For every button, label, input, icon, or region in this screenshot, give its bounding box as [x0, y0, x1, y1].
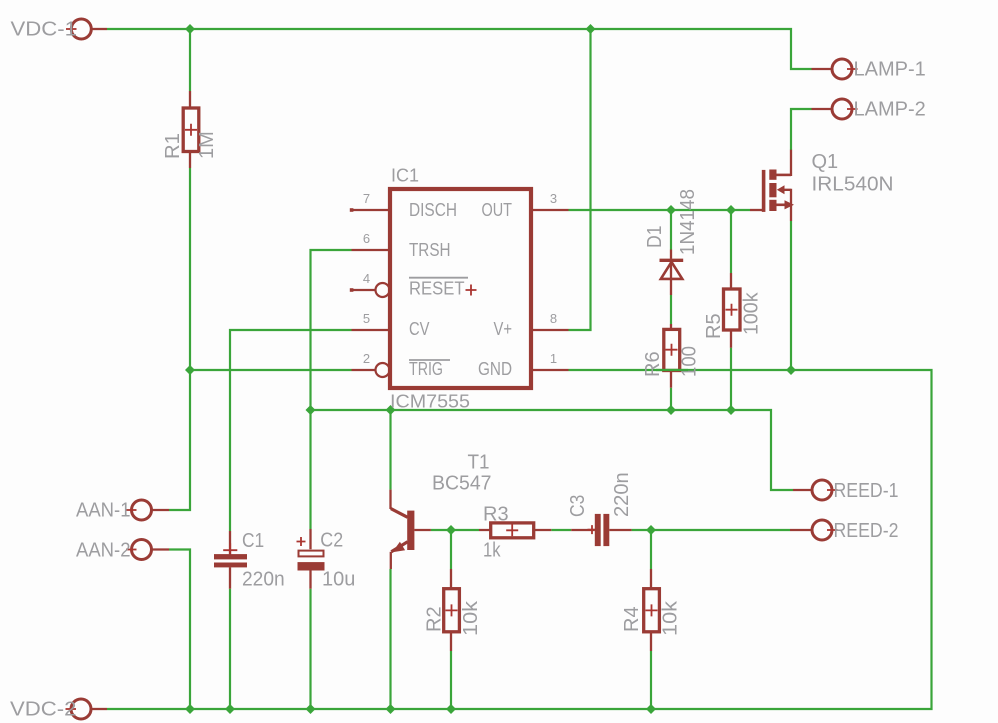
- svg-text:10u: 10u: [322, 569, 355, 591]
- junction node top rail at V+ branch: [586, 24, 596, 34]
- connector pin VDC-2: [10, 699, 107, 721]
- wire TRSH net pin 6 to C2: [311, 250, 352, 529]
- svg-text:R6: R6: [642, 351, 664, 377]
- wire R3 to C3: [551, 529, 571, 531]
- svg-text:AAN-2: AAN-2: [76, 540, 131, 562]
- svg-text:8: 8: [550, 311, 557, 326]
- wire Q1 source down to GND net: [790, 221, 792, 370]
- svg-text:CV: CV: [409, 319, 430, 339]
- resistor R2 10k: [424, 569, 483, 651]
- junction node ground rail at C2: [306, 704, 316, 714]
- wire R1 top lead to rail: [189, 29, 191, 91]
- connector pin VDC-1: [11, 19, 108, 41]
- junction node OUT at R5: [726, 205, 736, 215]
- svg-text:Q1: Q1: [812, 151, 839, 173]
- svg-text:REED-1: REED-1: [834, 480, 899, 502]
- wire R2 top: [450, 530, 452, 569]
- junction node ground rail at x190: [185, 704, 195, 714]
- junction node mid net at C2 column: [306, 405, 316, 415]
- junction node ground rail at T1 emitter: [386, 704, 396, 714]
- transistor T1 BC547 npn: [391, 452, 492, 570]
- wire R5 top to OUT net: [730, 210, 732, 273]
- svg-text:R4: R4: [621, 606, 643, 632]
- IC1 pin 3 OUT: [482, 191, 569, 220]
- svg-text:10k: 10k: [460, 600, 482, 636]
- junction node OUT at D1: [666, 205, 676, 215]
- svg-text:TRSH: TRSH: [409, 240, 451, 260]
- svg-text:220n: 220n: [611, 472, 633, 517]
- wire TRIG net from node to pin 2: [190, 369, 352, 371]
- junction node C3 net at R4: [646, 525, 656, 535]
- svg-text:T1: T1: [468, 452, 490, 474]
- IC1 pin 5 CV: [352, 311, 430, 339]
- svg-text:6: 6: [363, 231, 370, 246]
- svg-text:C3: C3: [567, 495, 589, 517]
- IC1 pin 2 TRIG inverted: [352, 351, 451, 379]
- svg-text:4: 4: [363, 271, 370, 286]
- wire GND net overlay across R6: [656, 369, 688, 371]
- connector pin AAN-2: [76, 540, 169, 562]
- svg-text:1M: 1M: [196, 131, 218, 159]
- wire R5 bottom to mid net: [730, 348, 732, 410]
- IC1 pin 6 TRSH: [352, 231, 451, 260]
- resistor R6 100: [642, 324, 701, 388]
- svg-text:AAN-1: AAN-1: [76, 500, 131, 522]
- junction node mid net at R5: [726, 405, 736, 415]
- resistor R3 1k horizontal: [479, 504, 551, 562]
- svg-text:V+: V+: [494, 319, 513, 339]
- svg-text:1N4148: 1N4148: [677, 189, 699, 255]
- svg-text:RESET: RESET: [409, 279, 465, 299]
- svg-text:C1: C1: [242, 530, 264, 552]
- svg-text:R5: R5: [703, 313, 725, 339]
- resistor R5 100k: [703, 273, 763, 348]
- svg-text:R2: R2: [424, 606, 446, 632]
- connector pin REED-2: [790, 520, 899, 542]
- svg-text:TRIG: TRIG: [409, 359, 443, 379]
- svg-text:R1: R1: [162, 133, 184, 159]
- capacitor C3 220n horizontal: [567, 472, 633, 546]
- svg-text:D1: D1: [644, 226, 666, 249]
- junction node top rail at R1: [185, 24, 195, 34]
- wire OUT net pin 3 to gate: [569, 209, 751, 211]
- junction node base net at R2: [446, 525, 456, 535]
- wire R4 top: [650, 530, 652, 569]
- junction node GND net at Q1 source: [786, 365, 796, 375]
- resistor R1 1M: [162, 91, 218, 168]
- wire D1 cathode to R6: [670, 295, 672, 324]
- wire C3 to REED-2: [632, 529, 790, 531]
- wire net N$1 top rail VDC-1 to LAMP-1: [107, 29, 812, 69]
- wire T1 base to R3: [431, 529, 479, 531]
- svg-text:VDC-2: VDC-2: [10, 699, 77, 721]
- connector pin REED-1: [793, 480, 899, 502]
- svg-text:1: 1: [550, 351, 557, 366]
- wire GND net pin 1 right side and bottom ground rail: [107, 370, 932, 709]
- svg-text:LAMP-1: LAMP-1: [854, 59, 926, 81]
- connector pin LAMP-1: [812, 59, 926, 81]
- wire R2 bottom to ground rail: [450, 651, 452, 709]
- svg-text:BC547: BC547: [432, 473, 492, 495]
- wire AAN-2 down to ground rail: [169, 550, 190, 710]
- svg-text:IRL540N: IRL540N: [812, 174, 894, 196]
- svg-text:220n: 220n: [242, 569, 285, 591]
- svg-text:GND: GND: [478, 359, 512, 379]
- svg-text:5: 5: [363, 311, 370, 326]
- wire R1 bottom to AAN-1: [169, 168, 190, 510]
- capacitor C1 220n: [214, 530, 285, 591]
- IC1 pin 1 GND: [478, 351, 569, 379]
- connector pin AAN-1: [76, 500, 169, 522]
- wire V+ branch from pin 8 up to top rail: [569, 29, 591, 330]
- wire mid net y410 to REED-1: [311, 410, 794, 490]
- op-amp timer IC1 ICM7555 box: [390, 166, 531, 412]
- svg-text:VDC-1: VDC-1: [11, 19, 78, 41]
- junction node ground rail at R4: [646, 704, 656, 714]
- svg-text:3: 3: [550, 191, 557, 206]
- connector pin LAMP-2: [812, 99, 926, 121]
- svg-text:7: 7: [363, 191, 370, 206]
- svg-text:LAMP-2: LAMP-2: [854, 99, 926, 121]
- capacitor C2 10u polarized: [297, 529, 356, 591]
- svg-text:DISCH: DISCH: [409, 200, 457, 220]
- junction node mid net at T1 collector: [386, 405, 396, 415]
- svg-text:2: 2: [363, 351, 370, 366]
- svg-text:IC1: IC1: [391, 166, 419, 186]
- transistor Q1 IRL540N mosfet: [750, 150, 894, 221]
- svg-text:1k: 1k: [483, 540, 501, 562]
- wire C1 bottom to ground rail: [229, 589, 231, 709]
- diode D1 1N4148: [644, 189, 699, 295]
- wire R4 bottom to ground rail: [650, 651, 652, 709]
- svg-text:REED-2: REED-2: [834, 520, 899, 542]
- svg-text:ICM7555: ICM7555: [390, 392, 470, 412]
- wire CV net pin 5 to C1: [230, 330, 352, 531]
- IC1 pin 4 RESET inverted: [350, 271, 477, 299]
- IC1 pin 8 V+: [494, 311, 569, 339]
- wire T1 emitter down to ground rail: [389, 569, 391, 709]
- svg-text:100k: 100k: [741, 292, 763, 335]
- junction node mid net at R6: [666, 405, 676, 415]
- wire T1 collector up to mid net: [389, 410, 391, 490]
- svg-text:OUT: OUT: [482, 200, 513, 220]
- svg-text:10k: 10k: [660, 600, 682, 636]
- wire D1 anode to OUT net: [670, 210, 672, 250]
- svg-text:R3: R3: [483, 504, 509, 526]
- junction node ground rail at C1: [225, 704, 235, 714]
- wire C2 bottom to ground rail: [309, 589, 311, 709]
- IC1 pin 7 DISCH: [350, 191, 457, 220]
- resistor R4 10k: [621, 569, 682, 651]
- svg-text:C2: C2: [320, 530, 343, 552]
- wire LAMP-2 to Q1 drain: [791, 109, 812, 150]
- junction node ground rail at R2: [446, 704, 456, 714]
- wire R6 bottom to mid net: [670, 388, 672, 410]
- junction node TRIG at x190: [185, 365, 195, 375]
- svg-text:100: 100: [679, 346, 701, 377]
